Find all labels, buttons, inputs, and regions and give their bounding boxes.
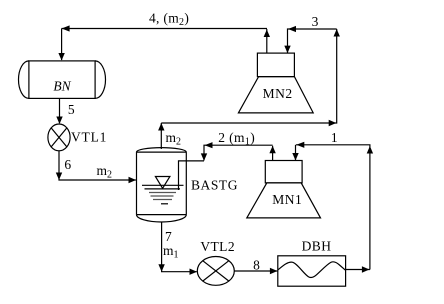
compressor MN1 trapezoid <box>247 183 321 218</box>
arrowhead down at wire 6 elbow <box>56 173 62 181</box>
valve VTL1 body <box>48 124 70 151</box>
svg-text:1: 1 <box>331 130 338 145</box>
svg-text:2 (m1): 2 (m1) <box>218 130 255 148</box>
dip pipe inside BASTG <box>179 161 205 190</box>
svg-text:VTL2: VTL2 <box>200 239 235 254</box>
valve VTL2 body <box>197 257 234 286</box>
arrowhead down into MN1 <box>292 153 298 161</box>
arrowhead left on wire 3 <box>288 26 296 32</box>
liquid level symbol triangle <box>155 177 170 189</box>
arrowhead down at wire 7 elbow <box>158 264 164 272</box>
wire 4 horizontal (MN2 to BN) <box>62 28 267 30</box>
svg-text:VTL1: VTL1 <box>71 130 107 145</box>
arrowhead up from MN2 <box>264 30 270 38</box>
arrowhead down into BN <box>58 53 64 61</box>
valve VTL2 cross <box>203 261 229 281</box>
wire riser to MN2 (horizontal then up) <box>161 29 336 123</box>
compressor MN2 trapezoid <box>238 77 313 113</box>
valve VTL1 cross <box>51 128 67 147</box>
wire 2 (m1) to BASTG dip pipe <box>204 145 273 160</box>
vessel BN left cap <box>19 61 29 99</box>
heat exchanger DBH box <box>278 256 346 286</box>
arrowhead up on wire 1 vertical <box>367 146 373 154</box>
svg-text:5: 5 <box>68 102 75 117</box>
svg-text:BN: BN <box>53 79 71 94</box>
vessel BN right cap <box>95 61 105 99</box>
arrowhead up from MN1 <box>269 146 275 154</box>
wire down into BN top <box>61 29 63 61</box>
arrowhead right into VTL2 <box>190 269 198 275</box>
wire down into MN1 <box>295 145 297 160</box>
svg-text:MN1: MN1 <box>272 192 302 207</box>
compressor MN1 top box <box>265 161 302 183</box>
arrowhead right into DBH <box>270 268 278 274</box>
wire 3 into MN2 <box>288 29 337 53</box>
arrowhead right into BASTG wall <box>129 177 137 183</box>
column BASTG shell <box>137 148 187 222</box>
arrowhead left on wire 2 <box>205 142 213 148</box>
wire DBH outlet to wire 1 <box>346 269 370 271</box>
vessel BN body <box>29 61 95 99</box>
wire m2 riser from BASTG top <box>160 123 162 149</box>
wire 5 (BN to VTL1) <box>59 98 61 123</box>
svg-text:3: 3 <box>312 14 319 29</box>
liquid level lines <box>142 185 184 204</box>
heat exchanger DBH coil wave <box>278 262 346 278</box>
arrowhead down into MN2 <box>284 46 290 54</box>
svg-text:8: 8 <box>253 257 260 272</box>
wire 1 (DBH up and into MN1) <box>296 145 370 270</box>
wire 8 (VTL2 to DBH) <box>234 270 277 272</box>
arrowhead left at wire 4 corner <box>62 25 70 31</box>
svg-text:7: 7 <box>165 229 172 244</box>
arrowhead up at riser top <box>158 123 164 131</box>
compressor MN2 top box <box>257 53 294 77</box>
wire MN2 outlet up to wire 4 <box>266 29 268 53</box>
svg-text:6: 6 <box>64 157 71 172</box>
svg-text:DBH: DBH <box>302 238 332 253</box>
svg-text:MN2: MN2 <box>263 86 293 101</box>
arrowhead up at top corner <box>334 29 340 37</box>
wire 2 riser from MN1 <box>272 146 274 161</box>
arrowhead down onto dip pipe <box>201 153 207 161</box>
arrowhead right at corner <box>329 120 337 126</box>
arrowhead right at DBH outlet corner <box>362 266 370 272</box>
svg-text:BASTG: BASTG <box>191 178 238 193</box>
wire 6 (VTL1 to BASTG) <box>59 151 136 180</box>
arrowhead left on wire 1 horizontal <box>296 142 304 148</box>
wire 7 (BASTG bottom to VTL2) <box>162 222 197 272</box>
arrowhead down into VTL1 <box>56 117 62 125</box>
